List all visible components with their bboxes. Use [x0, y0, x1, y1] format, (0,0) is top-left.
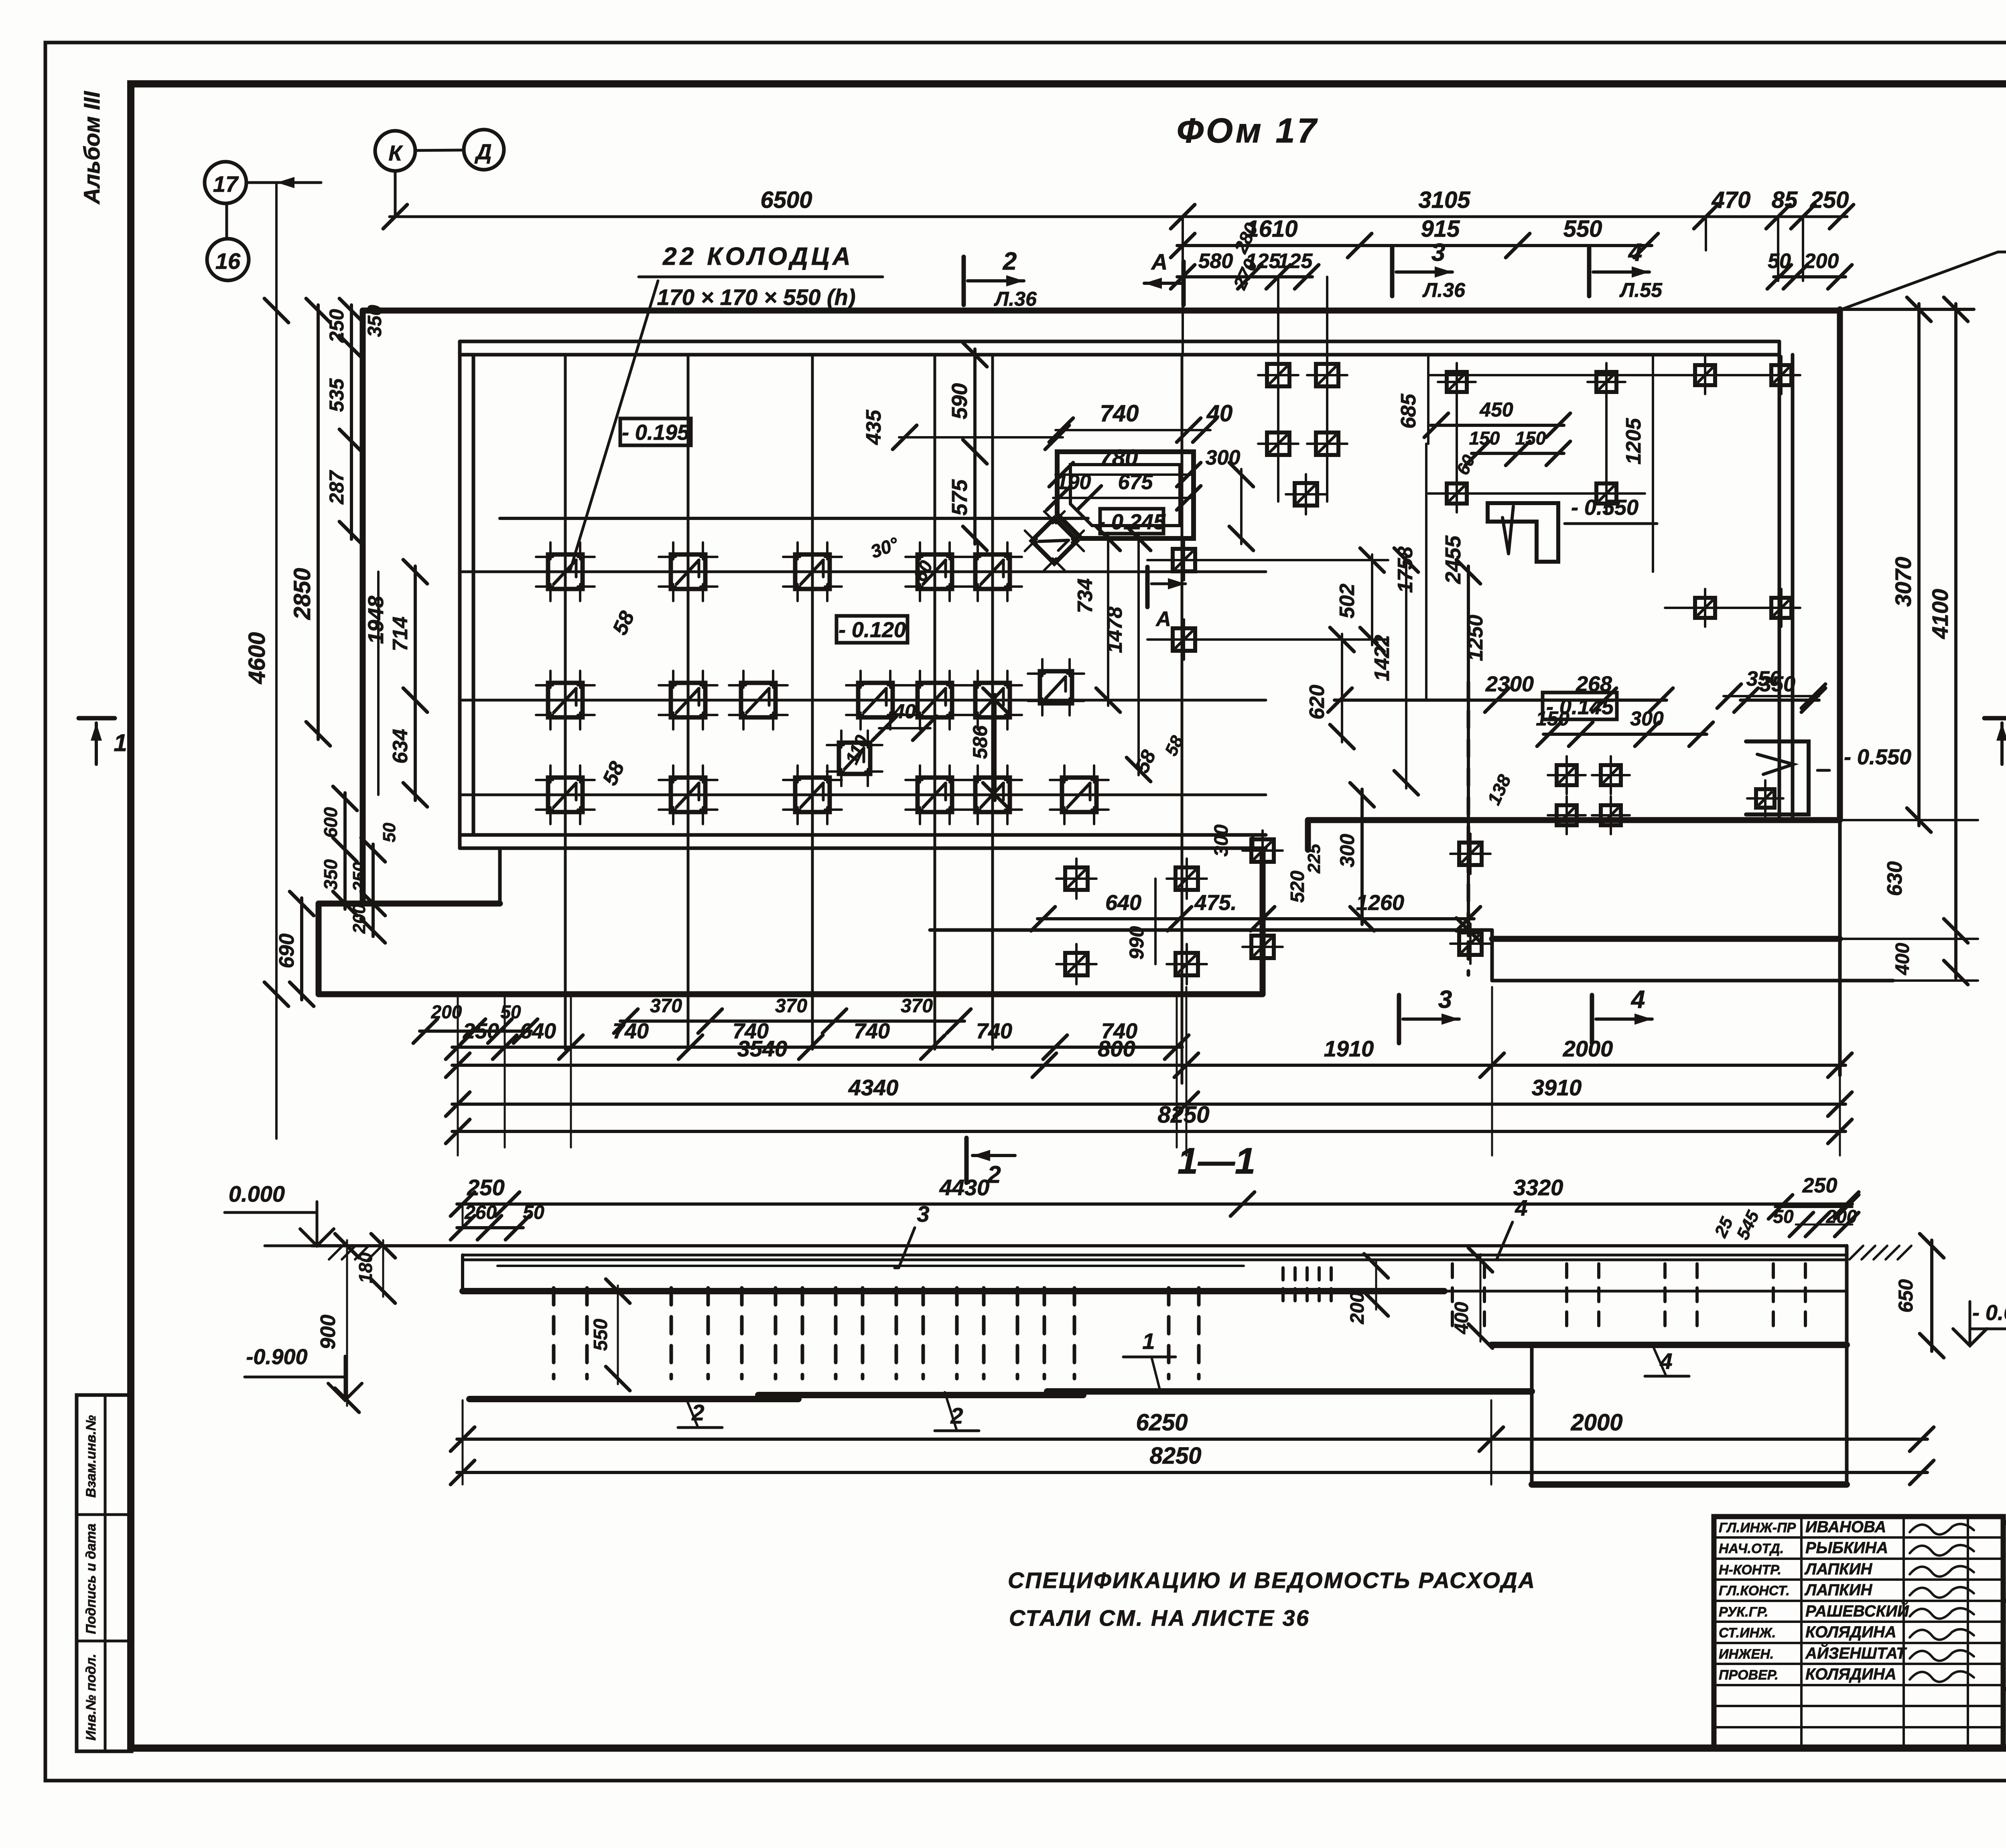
svg-text:125: 125 — [1278, 250, 1313, 273]
svg-text:Альбом III: Альбом III — [79, 91, 104, 205]
svg-text:470: 470 — [1712, 187, 1751, 213]
svg-text:2: 2 — [1003, 248, 1017, 275]
svg-text:Инв.№ подл.: Инв.№ подл. — [83, 1654, 99, 1741]
svg-text:4430: 4430 — [939, 1175, 990, 1200]
svg-text:2300: 2300 — [1485, 672, 1534, 696]
svg-text:2: 2 — [691, 1400, 704, 1425]
svg-text:СТ.ИНЖ.: СТ.ИНЖ. — [1719, 1625, 1776, 1641]
svg-text:1758: 1758 — [1394, 546, 1417, 593]
svg-text:Л.36: Л.36 — [994, 288, 1037, 310]
svg-text:350: 350 — [364, 305, 386, 337]
svg-text:502: 502 — [1336, 584, 1359, 619]
svg-text:- 0.650: - 0.650 — [1972, 1301, 2006, 1325]
svg-text:2850: 2850 — [289, 568, 315, 620]
svg-text:600: 600 — [320, 807, 341, 838]
svg-text:400: 400 — [1892, 943, 1913, 975]
svg-text:520: 520 — [1287, 871, 1308, 903]
svg-text:РЫБКИНА: РЫБКИНА — [1805, 1539, 1888, 1557]
svg-text:3070: 3070 — [1890, 557, 1916, 607]
svg-text:740: 740 — [976, 1019, 1012, 1043]
svg-text:Н-КОНТР.: Н-КОНТР. — [1719, 1562, 1781, 1578]
svg-text:3: 3 — [917, 1201, 929, 1227]
svg-text:370: 370 — [901, 995, 933, 1017]
svg-text:4340: 4340 — [848, 1075, 899, 1100]
svg-text:6250: 6250 — [1136, 1409, 1188, 1436]
svg-text:250: 250 — [1810, 187, 1849, 213]
svg-text:4: 4 — [1628, 239, 1642, 266]
svg-text:50: 50 — [523, 1202, 544, 1223]
svg-text:3540: 3540 — [737, 1036, 788, 1061]
svg-text:4: 4 — [1515, 1195, 1527, 1220]
svg-text:450: 450 — [1479, 398, 1513, 421]
svg-text:СТАЛИ СМ. НА ЛИСТЕ 36: СТАЛИ СМ. НА ЛИСТЕ 36 — [1009, 1605, 1310, 1631]
svg-text:НАЧ.ОТД.: НАЧ.ОТД. — [1719, 1541, 1784, 1556]
svg-text:3: 3 — [1431, 239, 1445, 266]
svg-text:200: 200 — [1804, 250, 1839, 273]
svg-text:268: 268 — [1576, 672, 1612, 696]
svg-text:1260: 1260 — [1356, 891, 1404, 915]
svg-text:990: 990 — [1125, 926, 1148, 960]
svg-text:740: 740 — [1100, 400, 1139, 426]
svg-text:2000: 2000 — [1570, 1409, 1622, 1436]
svg-text:2455: 2455 — [1441, 535, 1465, 584]
svg-text:535: 535 — [325, 378, 348, 412]
svg-text:2000: 2000 — [1563, 1036, 1613, 1061]
svg-text:ГЛ.ИНЖ-ПР: ГЛ.ИНЖ-ПР — [1719, 1520, 1796, 1535]
svg-text:3105: 3105 — [1418, 187, 1470, 213]
svg-text:370: 370 — [650, 995, 682, 1017]
svg-text:740: 740 — [854, 1019, 890, 1043]
svg-text:3910: 3910 — [1532, 1075, 1582, 1100]
svg-text:А: А — [1155, 607, 1171, 631]
svg-text:1948: 1948 — [364, 596, 388, 644]
svg-text:640: 640 — [1105, 891, 1141, 915]
svg-text:6500: 6500 — [760, 187, 812, 213]
svg-text:900: 900 — [317, 1315, 340, 1350]
svg-text:250: 250 — [467, 1175, 504, 1200]
svg-text:ИВАНОВА: ИВАНОВА — [1805, 1518, 1886, 1536]
svg-text:8250: 8250 — [1157, 1102, 1209, 1128]
svg-text:СПЕЦИФИКАЦИЮ И ВЕДОМОСТЬ РА: СПЕЦИФИКАЦИЮ И ВЕДОМОСТЬ РАСХОДА — [1008, 1568, 1536, 1593]
svg-text:ИНЖЕН.: ИНЖЕН. — [1719, 1647, 1774, 1662]
svg-text:734: 734 — [1074, 579, 1097, 613]
svg-text:16: 16 — [215, 248, 241, 274]
svg-text:714: 714 — [389, 617, 412, 652]
svg-text:300: 300 — [1211, 824, 1232, 857]
svg-text:Л.55: Л.55 — [1619, 279, 1663, 301]
svg-text:АЙЗЕНШТАТ: АЙЗЕНШТАТ — [1805, 1643, 1907, 1662]
svg-text:620: 620 — [1306, 685, 1329, 720]
svg-text:1: 1 — [1142, 1328, 1155, 1354]
svg-text:ЛАПКИН: ЛАПКИН — [1804, 1560, 1873, 1578]
svg-text:550: 550 — [1563, 216, 1602, 242]
svg-text:КОЛЯДИНА: КОЛЯДИНА — [1805, 1665, 1896, 1683]
svg-text:200: 200 — [349, 904, 369, 934]
svg-text:4: 4 — [1630, 986, 1645, 1013]
svg-text:РУК.ГР.: РУК.ГР. — [1719, 1604, 1768, 1620]
svg-text:1: 1 — [114, 729, 127, 756]
svg-text:ПРОВЕР.: ПРОВЕР. — [1719, 1667, 1779, 1683]
svg-text:475.: 475. — [1194, 891, 1236, 915]
svg-text:675: 675 — [1118, 471, 1153, 494]
svg-text:370: 370 — [775, 995, 807, 1017]
svg-text:586: 586 — [969, 725, 991, 759]
svg-text:250: 250 — [349, 862, 369, 892]
svg-text:250: 250 — [463, 1019, 499, 1043]
svg-text:780: 780 — [1099, 445, 1138, 471]
svg-text:350: 350 — [1746, 667, 1781, 690]
svg-text:1205: 1205 — [1622, 418, 1645, 465]
svg-text:РАШЕВСКИЙ: РАШЕВСКИЙ — [1805, 1601, 1909, 1620]
svg-text:ГЛ.КОНСТ.: ГЛ.КОНСТ. — [1719, 1583, 1790, 1598]
svg-text:915: 915 — [1421, 216, 1460, 242]
svg-text:К: К — [388, 141, 403, 165]
svg-text:ФОм 17: ФОм 17 — [1177, 112, 1319, 150]
svg-text:435: 435 — [862, 410, 885, 445]
svg-text:- 0.195: - 0.195 — [622, 420, 690, 445]
svg-text:350: 350 — [320, 859, 341, 890]
svg-text:260: 260 — [464, 1202, 497, 1223]
svg-text:0.000: 0.000 — [229, 1181, 285, 1206]
svg-text:550: 550 — [590, 1319, 611, 1351]
svg-text:- 0.120: - 0.120 — [839, 618, 906, 642]
svg-text:1—1: 1—1 — [1178, 1141, 1255, 1182]
svg-text:1250: 1250 — [1464, 615, 1487, 661]
svg-text:Л.36: Л.36 — [1422, 279, 1466, 301]
svg-text:А: А — [1151, 249, 1167, 274]
svg-text:40: 40 — [1206, 400, 1233, 426]
svg-text:1478: 1478 — [1103, 607, 1127, 653]
svg-text:85: 85 — [1772, 187, 1798, 213]
svg-text:150: 150 — [1469, 428, 1500, 449]
svg-text:740: 740 — [613, 1019, 649, 1043]
svg-text:1422: 1422 — [1370, 635, 1394, 681]
svg-text:4: 4 — [1659, 1348, 1672, 1374]
svg-text:- 0.550: - 0.550 — [1571, 496, 1639, 520]
svg-text:575: 575 — [948, 479, 972, 516]
svg-text:50: 50 — [380, 822, 399, 842]
svg-text:Взам.инв.№: Взам.инв.№ — [83, 1415, 99, 1498]
svg-text:Д: Д — [475, 140, 492, 164]
svg-text:300: 300 — [1336, 834, 1358, 867]
svg-text:590: 590 — [948, 383, 972, 419]
svg-text:250: 250 — [325, 309, 348, 343]
svg-text:17: 17 — [213, 171, 239, 197]
svg-text:287: 287 — [325, 470, 348, 505]
svg-text:8250: 8250 — [1149, 1443, 1201, 1469]
svg-text:225: 225 — [1304, 844, 1324, 874]
svg-text:150: 150 — [1515, 428, 1546, 449]
svg-text:50: 50 — [1768, 250, 1791, 273]
svg-text:4100: 4100 — [1927, 589, 1953, 640]
svg-text:630: 630 — [1883, 861, 1907, 896]
svg-text:Подпись и дата: Подпись и дата — [83, 1523, 99, 1634]
svg-text:250: 250 — [1802, 1174, 1837, 1197]
svg-text:22 КОЛОДЦА: 22 КОЛОДЦА — [662, 243, 854, 270]
svg-text:690: 690 — [275, 934, 298, 969]
svg-text:190: 190 — [1056, 471, 1091, 494]
svg-text:3: 3 — [1438, 986, 1452, 1013]
svg-text:400: 400 — [1451, 1302, 1472, 1334]
svg-text:-0.900: -0.900 — [246, 1345, 307, 1369]
svg-text:40: 40 — [893, 700, 916, 723]
svg-text:4600: 4600 — [244, 632, 270, 684]
svg-text:800: 800 — [1098, 1036, 1135, 1061]
svg-text:634: 634 — [389, 729, 412, 764]
svg-text:150: 150 — [1536, 707, 1569, 730]
svg-text:50: 50 — [1773, 1206, 1794, 1227]
svg-text:- 0.550: - 0.550 — [1844, 745, 1911, 769]
svg-text:650: 650 — [1894, 1279, 1917, 1313]
svg-text:300: 300 — [1630, 707, 1664, 730]
svg-text:580: 580 — [1198, 250, 1233, 273]
svg-text:685: 685 — [1397, 394, 1420, 429]
svg-text:ЛАПКИН: ЛАПКИН — [1804, 1581, 1873, 1599]
svg-text:640: 640 — [520, 1019, 556, 1043]
svg-text:200: 200 — [1347, 1292, 1368, 1324]
svg-text:170 × 170 × 550 (h): 170 × 170 × 550 (h) — [657, 284, 855, 310]
svg-text:КОЛЯДИНА: КОЛЯДИНА — [1805, 1623, 1896, 1641]
svg-text:1910: 1910 — [1324, 1036, 1374, 1061]
